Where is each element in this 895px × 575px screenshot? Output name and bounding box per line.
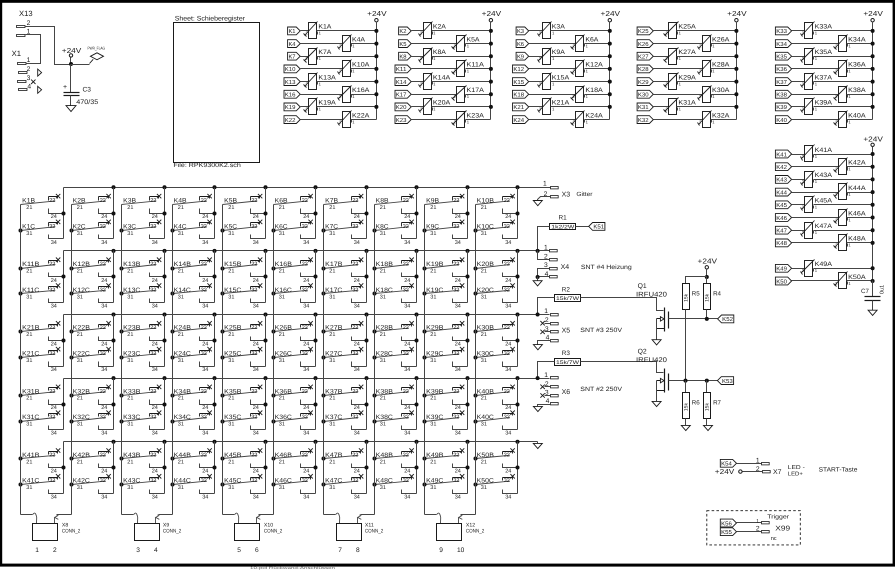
wire cell NO vertical [63, 379, 65, 430]
svg-text:K40A: K40A [848, 112, 866, 119]
wire K26 to coil [654, 43, 703, 45]
net flag K43 [775, 176, 791, 184]
svg-text:K25B: K25B [224, 325, 241, 332]
net flag K49 [775, 264, 791, 272]
connector X11 CONN_2 [337, 522, 384, 554]
junction rail [264, 440, 268, 444]
svg-text:34: 34 [354, 304, 360, 310]
svg-text:15k: 15k [705, 403, 711, 412]
net rail row 2 [64, 250, 550, 252]
svg-text:K32C: K32C [73, 414, 91, 421]
svg-text:31: 31 [329, 231, 335, 237]
contact K50B (col/row cell) [476, 448, 518, 474]
svg-text:21: 21 [481, 269, 487, 275]
wire X4.2 to rail [538, 251, 550, 260]
connector X3 [543, 180, 558, 198]
relay coil K45A [801, 196, 833, 213]
junction rail [264, 249, 268, 253]
relay coil K20A [419, 98, 452, 115]
wire K9 to coil [529, 56, 543, 58]
wire K2 to coil [412, 30, 424, 32]
svg-text:K50C: K50C [477, 478, 495, 485]
svg-text:21: 21 [26, 205, 32, 211]
svg-text:31: 31 [329, 358, 335, 364]
net flag K1 [288, 27, 301, 35]
svg-text:K8A: K8A [433, 49, 447, 56]
svg-text:34: 34 [404, 431, 410, 437]
svg-text:K32: K32 [638, 117, 649, 124]
junction rail [466, 376, 470, 380]
wire coil K32A to +24V rail [711, 119, 737, 121]
net flag K55 [720, 528, 736, 536]
svg-text:31: 31 [127, 231, 133, 237]
contact K6B (col/row cell) [274, 194, 316, 220]
ground below Q1 [652, 340, 661, 345]
svg-text:21: 21 [26, 269, 32, 275]
svg-text:34: 34 [404, 304, 410, 310]
svg-text:34: 34 [253, 304, 259, 310]
svg-text:K34C: K34C [174, 414, 192, 421]
svg-text:24: 24 [303, 214, 309, 220]
svg-text:24: 24 [505, 278, 511, 284]
junction 24-terminal [163, 275, 167, 279]
junction 24-terminal [365, 466, 369, 470]
svg-text:15k/7W: 15k/7W [556, 360, 579, 366]
connector X9 CONN_2 [135, 522, 182, 554]
svg-text:K14: K14 [396, 80, 407, 86]
svg-text:K40B: K40B [477, 388, 494, 395]
junction rail [516, 376, 520, 380]
wire common column 2 [71, 205, 73, 515]
wire coil K2A to +24V rail [432, 30, 491, 32]
svg-text:22: 22 [49, 389, 55, 395]
junction B pivot [322, 330, 326, 334]
wire cell NO vertical [517, 188, 519, 239]
resistor R2 [555, 286, 581, 302]
wire coil K28A to +24V rail [711, 68, 737, 70]
wire cell NO vertical [164, 315, 166, 367]
svg-text:31: 31 [380, 231, 386, 237]
wire cell NO vertical [315, 315, 317, 367]
svg-text:22: 22 [352, 198, 358, 204]
svg-text:K29B: K29B [426, 325, 443, 332]
svg-text:22: 22 [453, 325, 459, 331]
svg-text:21: 21 [329, 332, 335, 338]
PWR_FLAG [71, 46, 106, 65]
svg-text:22: 22 [302, 389, 308, 395]
relay coil K19A [304, 98, 337, 115]
junction 24-terminal [112, 466, 116, 470]
svg-text:K12: K12 [513, 66, 524, 73]
svg-text:X4: X4 [561, 264, 570, 271]
junction B pivot [221, 394, 225, 398]
svg-text:K46: K46 [776, 215, 787, 222]
svg-text:32: 32 [100, 478, 106, 484]
junction 24-terminal [163, 339, 167, 343]
relay coil K47A [801, 221, 833, 239]
contact K14B (col/row cell) [173, 258, 215, 284]
net rail row 5 [64, 441, 538, 443]
junction rail2/R1 [536, 249, 540, 253]
svg-text:32: 32 [251, 351, 257, 357]
wire C3 to ground [70, 96, 72, 106]
junction B pivot [19, 457, 23, 461]
svg-text:21: 21 [481, 459, 487, 465]
wire K50 to coil [792, 280, 839, 282]
svg-text:22: 22 [150, 198, 156, 204]
svg-text:24: 24 [152, 214, 158, 220]
svg-text:K15B: K15B [224, 261, 241, 268]
svg-text:22: 22 [201, 389, 207, 395]
junction 24-terminal [62, 212, 66, 216]
junction C pivot [474, 483, 478, 487]
svg-text:34: 34 [101, 494, 107, 500]
junction [871, 92, 875, 96]
junction B pivot [19, 394, 23, 398]
svg-text:22: 22 [100, 452, 106, 458]
junction rail [516, 313, 520, 317]
svg-text:31: 31 [77, 294, 83, 300]
wire column 8 to X11.2 [361, 514, 375, 516]
wire column 6 to X10.2 [259, 514, 274, 516]
junction [871, 216, 875, 220]
svg-text:34: 34 [202, 304, 208, 310]
svg-text:22: 22 [251, 325, 257, 331]
svg-text:32: 32 [302, 415, 308, 421]
junction [871, 152, 875, 156]
contact K45B (col/row cell) [223, 448, 266, 474]
net flag K51 [589, 223, 605, 231]
wire X5.4 to arrow [538, 341, 551, 345]
junction C pivot [423, 229, 427, 233]
relay coil K28A [698, 60, 731, 77]
svg-text:K32B: K32B [73, 388, 90, 395]
svg-text:32: 32 [150, 224, 156, 230]
svg-text:K13A: K13A [318, 74, 336, 81]
svg-text:31: 31 [178, 485, 184, 491]
svg-text:21: 21 [77, 396, 83, 402]
wire cell NO vertical [63, 442, 65, 494]
junction C pivot [272, 229, 276, 233]
relay coil K11A [452, 60, 485, 77]
svg-text:K33B: K33B [123, 388, 140, 395]
junction B pivot [171, 394, 175, 398]
junction C pivot [322, 356, 326, 360]
relay coil K42A [834, 158, 867, 175]
svg-text:15k/7W: 15k/7W [556, 296, 579, 302]
junction 24-terminal [112, 212, 116, 216]
svg-text:10-pol Rückwand-Anschlüssen: 10-pol Rückwand-Anschlüssen [250, 566, 335, 570]
junction C pivot [171, 420, 175, 424]
connector X8 CONN_2 [33, 522, 81, 554]
svg-text:K18: K18 [513, 92, 524, 99]
junction 24-terminal [365, 275, 369, 279]
svg-text:32: 32 [453, 287, 459, 293]
svg-text:+24V: +24V [698, 256, 718, 265]
connector X10 CONN_2 [235, 522, 283, 554]
net flag K53 [717, 377, 733, 385]
wire cell NO vertical [467, 315, 469, 367]
net flag K19 [284, 103, 300, 111]
wire cell NO vertical [113, 188, 115, 239]
junction C pivot [70, 483, 74, 487]
wire coil K48A to +24V rail [847, 242, 873, 244]
junction rail [112, 440, 116, 444]
junction rail [264, 313, 268, 317]
junction B pivot [272, 267, 276, 271]
svg-text:34: 34 [51, 304, 57, 310]
junction [608, 92, 612, 96]
svg-text:34: 34 [455, 304, 461, 310]
svg-text:22: 22 [403, 198, 409, 204]
wire K6 to coil [529, 43, 576, 45]
svg-text:32: 32 [251, 415, 257, 421]
svg-text:21: 21 [481, 396, 487, 402]
contact K47B (col/row cell) [324, 448, 367, 474]
svg-text:24: 24 [202, 405, 208, 411]
wire cell NO vertical [416, 188, 418, 239]
svg-text:K27A: K27A [678, 49, 696, 56]
svg-text:K1B: K1B [22, 198, 35, 205]
svg-text:K47B: K47B [325, 452, 342, 459]
svg-text:22: 22 [403, 452, 409, 458]
junction rail [163, 376, 167, 380]
svg-text:K8: K8 [399, 54, 406, 61]
wire cell NO vertical [517, 251, 519, 303]
svg-text:21: 21 [228, 396, 234, 402]
svg-text:K11: K11 [396, 67, 407, 73]
svg-text:34: 34 [202, 431, 208, 437]
svg-text:K49C: K49C [426, 478, 444, 485]
svg-text:+24V: +24V [715, 467, 735, 476]
wire cell NO vertical [214, 251, 216, 303]
svg-text:K4C: K4C [174, 223, 187, 230]
contact K32B (col/row cell) [72, 385, 114, 411]
junction C pivot [272, 420, 276, 424]
junction [871, 203, 875, 207]
wire K5 to coil [412, 43, 457, 45]
junction 24-terminal [466, 403, 470, 407]
contact K30B (col/row cell) [476, 321, 518, 347]
contact K20B (col/row cell) [476, 258, 518, 284]
wire common column 7 [323, 205, 325, 515]
svg-text:22: 22 [49, 198, 55, 204]
wire +24V rail to C7 [872, 281, 874, 297]
contact K15C [223, 283, 266, 309]
wire K12 to coil [529, 68, 576, 70]
relay coil K48A [834, 234, 867, 251]
wire K23 to coil [412, 119, 457, 121]
contact K1B (col/row cell) [21, 194, 64, 220]
contact K25B (col/row cell) [223, 321, 266, 347]
wire K10 to coil [301, 68, 343, 70]
svg-text:32: 32 [302, 224, 308, 230]
net flag K41 [775, 150, 791, 158]
svg-text:K23A: K23A [467, 112, 485, 119]
svg-text:4: 4 [154, 547, 158, 554]
svg-text:K5B: K5B [224, 198, 237, 205]
svg-text:1: 1 [35, 547, 39, 554]
junction 24-terminal [163, 212, 167, 216]
junction B pivot [373, 394, 377, 398]
wire K3 to coil [529, 30, 543, 32]
svg-text:34: 34 [303, 367, 309, 373]
svg-text:31: 31 [481, 358, 487, 364]
svg-text:K26A: K26A [712, 36, 730, 43]
svg-text:32: 32 [49, 224, 55, 230]
wire coil K17A to +24V rail [466, 94, 491, 96]
svg-text:34: 34 [404, 494, 410, 500]
junction B pivot [120, 394, 124, 398]
junction C pivot [70, 420, 74, 424]
wire K53 node to R7 [706, 381, 708, 393]
junction B pivot [322, 457, 326, 461]
net flag K10 [284, 65, 300, 73]
junction C pivot [474, 420, 478, 424]
svg-text:K44: K44 [776, 190, 787, 196]
arrow port X5 [533, 345, 542, 350]
svg-text:Gitter: Gitter [576, 191, 592, 198]
net flag K47 [775, 226, 791, 234]
junction 24-terminal [314, 339, 318, 343]
svg-text:K37B: K37B [325, 388, 342, 395]
svg-text:22: 22 [201, 325, 207, 331]
svg-text:31: 31 [380, 358, 386, 364]
svg-text:31: 31 [279, 358, 285, 364]
contact K39B (col/row cell) [425, 385, 468, 411]
svg-text:21: 21 [279, 459, 285, 465]
svg-text:32: 32 [201, 287, 207, 293]
contact K8B (col/row cell) [375, 194, 417, 220]
relay coil K6A [571, 35, 600, 52]
contact K45C [223, 474, 266, 500]
wire common column 10 [475, 205, 477, 515]
svg-text:32: 32 [100, 415, 106, 421]
contact K7B (col/row cell) [324, 194, 367, 220]
svg-text:K23B: K23B [123, 325, 140, 332]
svg-text:K17B: K17B [325, 261, 342, 268]
svg-text:K16A: K16A [352, 87, 370, 94]
wire R3 to Q2 gate [581, 362, 664, 373]
net flag K26 [637, 40, 653, 48]
svg-text:31: 31 [178, 358, 184, 364]
svg-text:24: 24 [51, 341, 57, 347]
svg-text:K17A: K17A [467, 87, 485, 94]
svg-text:K20B: K20B [477, 261, 494, 268]
svg-text:K31: K31 [638, 104, 649, 111]
wire cell NO vertical [214, 315, 216, 367]
svg-text:K12A: K12A [585, 62, 603, 69]
svg-text:22: 22 [302, 198, 308, 204]
svg-text:K44A: K44A [848, 185, 866, 192]
no-connect X6.3 [540, 393, 544, 397]
wire cell NO vertical [113, 442, 115, 494]
svg-text:34: 34 [455, 494, 461, 500]
connector X1 pin 4 [19, 84, 42, 94]
wire coil K18A to +24V rail [585, 94, 610, 96]
svg-text:R1: R1 [559, 215, 568, 222]
junction rail [264, 185, 268, 189]
contact K43C [122, 474, 165, 500]
connector X13 [17, 9, 33, 37]
relay coil K12A [571, 60, 604, 77]
junction C pivot [322, 292, 326, 296]
wire common column 9 [424, 205, 426, 515]
connector X1 [12, 49, 42, 83]
junction C pivot [272, 292, 276, 296]
wire cell NO vertical [265, 442, 267, 494]
junction C pivot [221, 420, 225, 424]
net flag K8 [399, 52, 412, 60]
net flag K13 [284, 78, 300, 86]
net flag K39 [775, 103, 791, 111]
contact K30C [476, 347, 518, 373]
wire K28 to coil [654, 68, 703, 70]
svg-text:24: 24 [51, 405, 57, 411]
svg-text:31: 31 [127, 422, 133, 428]
wire coil K44A to +24V rail [847, 192, 873, 194]
junction B pivot [70, 394, 74, 398]
junction 24-terminal [365, 403, 369, 407]
net flag K50 [775, 277, 791, 285]
junction [489, 54, 493, 58]
svg-text:K45C: K45C [224, 478, 242, 485]
junction rail [163, 313, 167, 317]
junction C pivot [120, 356, 124, 360]
wire cell NO vertical [164, 379, 166, 430]
relay coil K35A [801, 48, 833, 65]
relay coil K43A [801, 171, 833, 188]
wire coil K37A to +24V rail [814, 81, 873, 83]
relay coil K37A [801, 73, 833, 90]
junction rail [213, 185, 217, 189]
svg-text:SNT #3 250V: SNT #3 250V [580, 327, 623, 334]
svg-text:K40C: K40C [477, 414, 495, 421]
svg-text:SNT #2 250V: SNT #2 250V [580, 386, 623, 393]
wire cell NO vertical [265, 251, 267, 303]
junction C pivot [373, 229, 377, 233]
svg-text:470/35: 470/35 [76, 99, 98, 106]
wire common column 5 [222, 205, 224, 515]
junction [871, 266, 875, 270]
wire K37 to coil [792, 81, 805, 83]
svg-text:K7A: K7A [318, 49, 332, 56]
wire cell NO vertical [164, 188, 166, 239]
svg-text:21: 21 [279, 269, 285, 275]
wire +24V to C3 [70, 65, 72, 93]
wire +24V to R5 [686, 277, 707, 284]
svg-text:K52: K52 [722, 316, 733, 323]
power +24V (X7) [715, 467, 763, 476]
svg-text:K22C: K22C [73, 351, 91, 358]
svg-text:K56: K56 [721, 520, 732, 527]
svg-text:31: 31 [481, 231, 487, 237]
relay coil K33A [801, 22, 833, 39]
power +24V rail (relay group 5) [863, 9, 883, 119]
wire K8 to coil [412, 56, 424, 58]
contact K28B (col/row cell) [375, 321, 417, 347]
svg-text:K29: K29 [638, 79, 649, 86]
contact K27B (col/row cell) [324, 321, 367, 347]
svg-text:24: 24 [455, 214, 461, 220]
no-connect X5.3 [540, 330, 544, 334]
contact K24C [173, 347, 215, 373]
svg-text:K32A: K32A [712, 112, 730, 119]
svg-text:31: 31 [279, 294, 285, 300]
wire coil K35A to +24V rail [814, 56, 873, 58]
junction C pivot [423, 420, 427, 424]
svg-text:K38: K38 [776, 92, 787, 99]
